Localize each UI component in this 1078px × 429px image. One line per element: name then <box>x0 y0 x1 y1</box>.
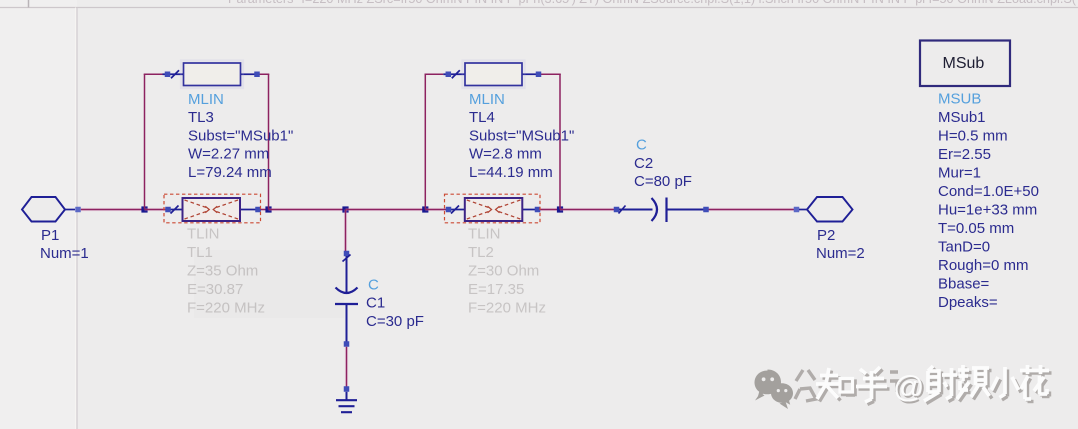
svg-text:C=30 pF: C=30 pF <box>366 313 424 330</box>
junction node 1 <box>141 206 147 212</box>
svg-text:Hu=1e+33 mm: Hu=1e+33 mm <box>938 202 1037 219</box>
wire node 4 to TL2 <box>425 208 446 211</box>
svg-text:Num=1: Num=1 <box>40 245 89 262</box>
svg-text:L=44.19 mm: L=44.19 mm <box>469 164 553 181</box>
svg-text:Bbase=: Bbase= <box>938 276 990 293</box>
svg-text:TL3: TL3 <box>188 109 214 126</box>
wire P1 to node 1 <box>81 208 145 211</box>
svg-text:C: C <box>368 277 379 294</box>
svg-text:Mur=1: Mur=1 <box>938 165 981 182</box>
svg-text:Num=2: Num=2 <box>816 245 865 262</box>
microstrip line MLIN TL4 <box>443 61 541 89</box>
capacitor C1 <box>335 251 358 347</box>
junction node 5 <box>557 206 563 212</box>
svg-text:W=2.8 mm: W=2.8 mm <box>469 146 542 163</box>
wire riser right of MLIN TL3 <box>257 74 270 209</box>
wire TL2 to node 5 <box>540 208 560 211</box>
ideal transmission line TLIN TL2 (deactivated) <box>446 198 541 221</box>
label C1 <box>366 277 424 331</box>
label MLIN TL4 parameters <box>469 91 574 181</box>
svg-text:Subst="MSub1": Subst="MSub1" <box>188 127 293 144</box>
svg-text:Subst="MSub1": Subst="MSub1" <box>469 127 574 144</box>
svg-text:Z=30 Ohm: Z=30 Ohm <box>468 263 539 280</box>
capacitor C2 <box>614 198 709 223</box>
watermark WeChat icon <box>754 370 793 410</box>
svg-text:TLIN: TLIN <box>187 226 220 243</box>
VAR parameters text (clipped at top) <box>228 0 1077 6</box>
wire TL1 to node 2 <box>261 208 269 211</box>
svg-text:P1: P1 <box>41 227 59 244</box>
deactivation cross on TL1 <box>164 194 261 223</box>
svg-text:C1: C1 <box>366 295 385 312</box>
wire node 5 to C2 <box>560 208 614 211</box>
wire node 2 to node 3 <box>269 208 346 211</box>
wire C1 to ground <box>345 347 348 387</box>
label MLIN TL3 parameters <box>188 91 293 181</box>
ground <box>336 386 357 412</box>
svg-text:MSub1: MSub1 <box>938 109 986 126</box>
svg-text:E=17.35: E=17.35 <box>468 281 524 298</box>
svg-text:MLIN: MLIN <box>188 91 224 108</box>
label TLIN TL2 parameters (grayed) <box>468 226 546 317</box>
svg-text:C2: C2 <box>634 155 653 172</box>
wire C2 to P2 <box>709 208 795 211</box>
svg-text:Parameters" f=220 MHz ZSrc=fr5: Parameters" f=220 MHz ZSrc=fr50 OhmN PIN… <box>228 0 1077 6</box>
label TLIN TL1 parameters (grayed) <box>187 226 265 317</box>
wire riser left of MLIN TL3 <box>144 74 163 209</box>
wire riser right of MLIN TL4 <box>538 74 561 209</box>
svg-text:MSUB: MSUB <box>938 91 981 108</box>
svg-text:MSub: MSub <box>943 55 985 72</box>
faint overlay patch <box>194 250 344 318</box>
svg-text:F=220 MHz: F=220 MHz <box>468 300 546 317</box>
svg-text:P2: P2 <box>817 227 835 244</box>
svg-text:TL2: TL2 <box>468 244 494 261</box>
label MSUB parameters <box>938 91 1039 312</box>
svg-text:TLIN: TLIN <box>468 226 501 243</box>
svg-text:Er=2.55: Er=2.55 <box>938 146 991 163</box>
svg-text:MLIN: MLIN <box>469 91 505 108</box>
port P1 <box>22 197 81 222</box>
svg-text:Dpeaks=: Dpeaks= <box>938 294 998 311</box>
label P2 Num=2 <box>816 227 865 262</box>
wire riser left of MLIN TL4 <box>425 74 444 209</box>
svg-text:TanD=0: TanD=0 <box>938 239 990 256</box>
junction node 3 (C1 tap) <box>342 206 348 212</box>
junction node 2 <box>265 206 271 212</box>
svg-text:L=79.24 mm: L=79.24 mm <box>188 164 272 181</box>
port P2 <box>794 197 853 222</box>
wire node 3 down to C1 <box>344 210 347 252</box>
substrate box MSub <box>920 41 1010 87</box>
svg-text:@: @ <box>893 369 924 404</box>
svg-text:W=2.27 mm: W=2.27 mm <box>188 146 269 163</box>
svg-text:T=0.05 mm: T=0.05 mm <box>938 220 1014 237</box>
label C2 <box>634 137 692 191</box>
svg-text:Cond=1.0E+50: Cond=1.0E+50 <box>938 183 1039 200</box>
svg-text:C=80 pF: C=80 pF <box>634 173 692 190</box>
svg-text:TL4: TL4 <box>469 109 495 126</box>
svg-text:C: C <box>636 137 647 154</box>
watermark text 知乎 @射频小花 <box>795 365 1052 406</box>
ideal transmission line TLIN TL1 (deactivated) <box>165 198 261 221</box>
deactivation cross on TL2 <box>445 194 541 223</box>
label P1 Num=1 <box>40 227 89 262</box>
junction node 4 <box>422 206 428 212</box>
svg-text:H=0.5 mm: H=0.5 mm <box>938 128 1008 145</box>
wire node 3 to node 4 <box>346 208 426 211</box>
svg-text:Rough=0 mm: Rough=0 mm <box>938 257 1028 274</box>
wire node1 to TL1 <box>145 208 167 211</box>
microstrip line MLIN TL3 <box>163 61 260 89</box>
